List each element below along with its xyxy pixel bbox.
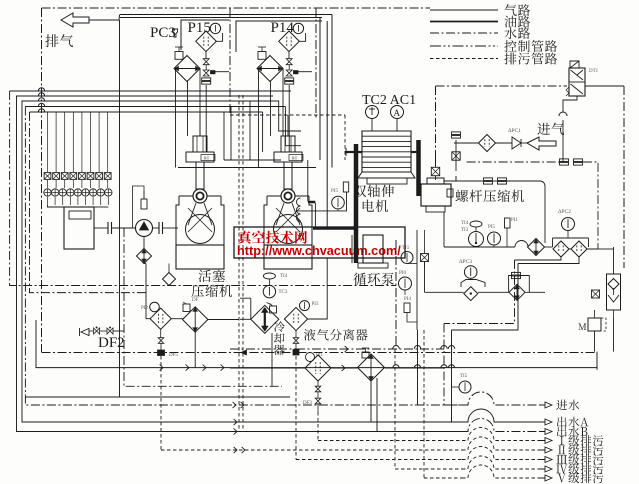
legend line oil 油路 — [430, 21, 498, 23]
wire comp drain left — [443, 212, 445, 247]
wire sep bottom valve — [295, 331, 297, 338]
svg-text:PI0: PI0 — [399, 271, 406, 276]
output line Ⅱ级排污 — [462, 437, 540, 450]
wire P14 col d — [288, 85, 290, 152]
svg-text:TI5: TI5 — [460, 374, 468, 379]
gauge circles row — [44, 189, 51, 196]
wire manifold right — [597, 247, 599, 249]
wire oil y292 — [425, 291, 464, 293]
wire P15 diamond sides — [175, 69, 177, 82]
wire water y368 hops — [393, 365, 399, 368]
svg-text:http://www.chvacuum.com/: http://www.chvacuum.com/ — [237, 244, 401, 258]
bowtie valve P15 1 — [203, 59, 209, 65]
wire comp1 top rod — [199, 115, 201, 136]
wire dashdot pump left — [395, 240, 397, 345]
output line 出水A — [462, 409, 540, 422]
solenoid squares row — [44, 173, 51, 180]
gauge PI5 — [488, 232, 501, 245]
svg-text:ΔPC3: ΔPC3 — [459, 259, 472, 265]
capacitor mark 1 — [107, 222, 109, 234]
wire top header line2 — [120, 17, 322, 19]
wire bus loop E water — [30, 111, 263, 113]
label 螺杆压缩机 — [456, 190, 525, 203]
bowtie valve P14 2 — [286, 70, 292, 76]
flowmeter squares — [484, 178, 493, 181]
piston compressor cylinder 2 — [281, 136, 295, 152]
valve nub P15 — [211, 71, 216, 74]
piston compressor cylinder 1 — [193, 136, 207, 152]
wire pump gauge stems — [407, 263, 417, 265]
svg-text:DF: DF — [192, 298, 199, 303]
circulation pump body — [363, 235, 383, 263]
wire right col down — [613, 318, 615, 348]
motor shaft left — [346, 151, 362, 153]
wire right pair drop — [443, 324, 445, 406]
valve PI1 — [505, 218, 511, 228]
wire df3 valve — [317, 381, 319, 386]
wire vertical x332 — [331, 15, 333, 168]
wire tank manifold — [48, 205, 65, 207]
union P15 — [202, 78, 211, 81]
wire M up — [594, 310, 596, 318]
bowtie valve P15 2 — [203, 70, 209, 76]
legend line gas 气路 — [430, 9, 498, 11]
gauge PI0 — [399, 277, 412, 290]
wire out y405 left — [444, 404, 462, 406]
component M — [588, 318, 601, 331]
chevrons y367 — [160, 365, 163, 371]
legend line drain 排污管路 — [430, 58, 498, 60]
wire P15 valve link — [205, 65, 207, 70]
wire sep right — [308, 259, 328, 320]
svg-text:DT1: DT1 — [589, 69, 599, 74]
svg-text:PI3: PI3 — [312, 302, 319, 307]
filter diamond intake — [479, 135, 496, 152]
wire P14 col a — [258, 82, 260, 168]
wire checkvalve col down — [613, 348, 615, 352]
svg-text:DF3: DF3 — [303, 401, 312, 406]
svg-text:TI3: TI3 — [461, 228, 469, 233]
output line 进水 — [462, 392, 540, 405]
label 进气 — [537, 123, 564, 135]
svg-text:PI5: PI5 — [488, 225, 495, 230]
wire P14 col b — [270, 82, 272, 137]
wire cooler out — [271, 333, 273, 386]
svg-text:PC3: PC3 — [150, 25, 176, 41]
wire PI4 down — [407, 313, 417, 323]
svg-text:PI1: PI1 — [511, 218, 518, 223]
output line 出水B — [462, 419, 540, 432]
svg-text:TI4: TI4 — [461, 221, 469, 226]
filter funnel dPC3 — [461, 280, 485, 288]
filter gauge dPC3 — [464, 266, 477, 279]
svg-text:TI4: TI4 — [280, 274, 288, 279]
check diamond P14 — [257, 56, 283, 82]
output line Ⅴ级排污 — [462, 465, 540, 478]
wire drain vert x424 — [423, 330, 425, 478]
wire DT1 drop cont — [562, 120, 564, 162]
wire pump col to water — [417, 330, 419, 405]
oil cooler manifold — [553, 238, 589, 247]
output line Ⅲ级排污 — [462, 447, 540, 460]
gauge TC2 — [366, 106, 379, 119]
wire control y162 — [467, 161, 560, 163]
check diamond P15 — [174, 56, 200, 82]
intake valve cone — [512, 137, 521, 149]
wires solenoid to circles — [47, 180, 49, 188]
svg-text:ΔPC2: ΔPC2 — [558, 209, 571, 215]
wire bottom line — [230, 367, 305, 369]
wire M col down — [594, 331, 596, 352]
gauge TC3 — [263, 285, 275, 297]
wire vertical x320 — [319, 18, 321, 161]
union control 1 — [560, 159, 569, 162]
valve DF2 cone — [81, 328, 89, 335]
wire relief — [133, 186, 145, 228]
wire df2 region — [146, 264, 150, 319]
label 活塞压缩机 — [199, 270, 226, 282]
svg-text:ΔPC1: ΔPC1 — [508, 128, 521, 134]
wires solenoid bank drop — [47, 112, 49, 172]
wire manifold y247 — [444, 246, 515, 248]
wire PI5 loop — [296, 192, 347, 211]
filter diamond dPC3 — [464, 287, 478, 301]
output line Ⅳ级排污 — [462, 456, 540, 469]
wire DF2 line — [113, 330, 124, 332]
svg-text:B/F: B/F — [204, 156, 211, 161]
check diamond below pump — [137, 249, 152, 264]
wire bus loop A water — [10, 90, 291, 92]
wire dashed mid vert — [344, 115, 346, 160]
wire pump to comp — [163, 227, 179, 229]
union intake — [452, 132, 461, 135]
wire manifold bottom — [515, 249, 599, 264]
intake arrow — [527, 137, 556, 150]
filter diamond sep — [284, 307, 307, 330]
label 循环泵 — [353, 273, 394, 285]
oil bar left — [354, 144, 359, 263]
svg-text:DF5: DF5 — [169, 353, 178, 358]
watermark text 真空技术网 — [238, 231, 307, 244]
chevrons y405 — [233, 402, 236, 408]
wire mid verticals — [223, 112, 225, 160]
bypass loop regulator — [509, 276, 530, 293]
check diamond oil — [528, 239, 545, 256]
wire P15 diamond drop — [205, 52, 207, 59]
wire bus loop C — [22, 101, 462, 422]
wire drain df3 col — [317, 412, 319, 441]
wire water return x36 — [36, 320, 597, 370]
wires circles to manifold — [47, 197, 49, 205]
filter diamond oilA — [553, 241, 569, 257]
wire P14 diamond sides — [258, 69, 260, 82]
wire squarex down — [424, 262, 426, 293]
label 液气分离器 — [304, 329, 368, 341]
wire P14 box — [236, 21, 322, 52]
wire manifold y247b — [527, 246, 530, 248]
valve PI5 — [343, 182, 348, 192]
svg-text:PI5: PI5 — [331, 189, 338, 194]
valve cooler top — [270, 306, 277, 313]
solenoid valve DT1 — [569, 68, 585, 96]
svg-text:DF2: DF2 — [98, 335, 125, 351]
gauge TI5 — [459, 381, 471, 393]
wire drain loop x124 — [124, 228, 282, 386]
svg-text:B/F: B/F — [292, 156, 299, 161]
oil bar horizontal — [313, 227, 358, 230]
gauge AC1 — [391, 106, 404, 119]
wire coolerout A — [370, 381, 372, 422]
check valve right — [607, 274, 621, 310]
wire border bottom dashdot — [42, 352, 596, 354]
svg-text:P15: P15 — [188, 20, 211, 36]
wire TC3 loop — [240, 298, 251, 319]
label 冷却器 vertical — [274, 321, 285, 332]
filter diamond PI1b — [305, 355, 331, 381]
wire P14 diamond drop — [288, 52, 290, 59]
wire tank out — [94, 227, 108, 229]
wire pump col — [416, 230, 418, 330]
label 电机 — [363, 200, 388, 213]
svg-text:PI2: PI2 — [141, 306, 148, 311]
wire bus loop B — [17, 96, 463, 432]
wire comp2 feed c — [262, 112, 264, 152]
bowtie valve P14 1 — [286, 59, 292, 65]
wire AC1 stem — [396, 119, 398, 132]
svg-text:TC3: TC3 — [279, 290, 288, 295]
wire P14 valve link — [288, 65, 290, 70]
valve top bottom — [362, 352, 369, 358]
wire drain vert x296 — [295, 356, 297, 460]
screw compressor body — [421, 184, 451, 206]
wire comp2 feed a — [246, 101, 301, 131]
wire top border dashdot — [42, 7, 431, 9]
wire P15 box — [181, 20, 229, 50]
wire intake drop2 — [455, 163, 457, 171]
filter diamond PI2b — [150, 308, 171, 329]
small diamond lower — [163, 273, 176, 286]
wire P15 col d — [205, 85, 207, 152]
legend line water 水路 — [430, 32, 498, 34]
valve nub P14 — [294, 71, 299, 74]
intercooler coil — [297, 198, 301, 222]
gauge P15 top — [210, 23, 220, 33]
gauge PI6 — [332, 196, 345, 209]
motor shaft right — [411, 151, 418, 153]
oil tank — [64, 207, 94, 249]
svg-text:TI1: TI1 — [402, 246, 410, 251]
squarex pump right — [421, 254, 429, 262]
hop DT1 — [559, 112, 567, 116]
wire top header line1 — [120, 14, 332, 16]
output line Ⅰ级排污 — [462, 428, 540, 441]
label 双轴伸 — [354, 185, 394, 197]
valve PI4 — [404, 303, 410, 313]
gauge dPC2 — [562, 218, 575, 231]
wire left border dashdot — [41, 8, 43, 352]
arrow on water line — [241, 350, 247, 355]
wire right down — [613, 247, 615, 274]
separator dashdot x230 — [229, 8, 231, 115]
valve P14 small — [258, 52, 266, 60]
wire right pair verts — [444, 260, 515, 324]
wire P14 gauge link — [299, 33, 305, 41]
wire P15 col a — [175, 82, 177, 168]
watermark box — [234, 227, 405, 258]
wire drain vert x395 — [394, 349, 396, 469]
wire dashed mid horiz — [230, 114, 345, 116]
squarex intake — [452, 152, 460, 160]
filter diamond P15 — [196, 31, 217, 52]
wire discharge — [456, 176, 483, 181]
legend line control 控制管路 — [430, 45, 498, 47]
hop manifold — [515, 241, 528, 248]
oil bar right — [416, 140, 421, 196]
motor body 双轴伸电机 — [362, 131, 411, 172]
wire control vert — [435, 86, 437, 150]
wire out y422 left — [452, 421, 463, 423]
wire d2 drop — [194, 332, 196, 367]
wire DT1 down — [563, 96, 577, 112]
wire coolerout B — [376, 378, 378, 432]
capacitor mark 2 — [158, 222, 160, 234]
relief valve above pump — [141, 199, 147, 209]
wire dashed vert pair — [238, 95, 240, 430]
check diamond bottom — [358, 354, 385, 381]
wire intake drop — [455, 147, 457, 163]
wire P15 gauge link — [216, 33, 222, 41]
gauge P14 top — [293, 23, 303, 33]
wire comp2 feed b — [285, 107, 301, 146]
wire P14 col c — [282, 79, 284, 136]
wire control dashdot top — [436, 85, 568, 87]
wire P15 col c — [199, 79, 201, 136]
wire bottom dashdot — [230, 348, 296, 350]
svg-text:A: A — [394, 108, 401, 118]
gauge TI3 — [469, 232, 484, 247]
check diamond regulator — [509, 284, 525, 300]
wire bus loop D water — [25, 106, 285, 108]
filter diamond oilB — [571, 241, 587, 257]
hop marks left border — [38, 88, 44, 91]
wire to pump — [112, 227, 137, 229]
gauge TI1 — [401, 252, 413, 264]
wire right border dashdot — [623, 86, 625, 268]
wire drain vert x162 — [160, 356, 162, 450]
svg-text:PI1: PI1 — [316, 353, 323, 358]
wire df5 union — [160, 329, 162, 337]
label 排气 — [45, 34, 73, 47]
wire DT1 right loop — [585, 85, 624, 87]
squarex right — [592, 290, 600, 298]
gauge PI3 — [300, 301, 310, 311]
wire x307 drop — [307, 160, 309, 202]
bowtie DF2 a — [94, 328, 100, 334]
check diamond DF — [183, 307, 208, 332]
wire vertical x326 — [326, 21, 328, 227]
wire TC2 stem — [371, 119, 373, 132]
exhaust arrow 排气 — [61, 13, 89, 27]
wire vertical dashdot x316 — [315, 8, 317, 120]
svg-text:P14: P14 — [271, 20, 295, 36]
valve P15 small — [175, 52, 183, 60]
wire intake line — [454, 142, 479, 144]
wire exhaust to header — [89, 15, 120, 21]
wire P15 col b — [187, 82, 189, 137]
cooler diamond — [251, 305, 279, 333]
wire TI3 stem — [475, 246, 477, 249]
union control 2 — [574, 159, 583, 162]
svg-text:PI4: PI4 — [404, 297, 411, 302]
union P14 — [285, 78, 294, 81]
filter diamond P14 — [279, 31, 300, 52]
wire water y349 hops — [393, 346, 399, 349]
wire control y162 right — [583, 162, 598, 247]
wire comp2 top rod — [287, 115, 289, 136]
oil pump — [136, 220, 153, 237]
wire manifold y247c — [545, 246, 553, 248]
wire comp top link — [444, 176, 456, 181]
wire pump out — [153, 227, 160, 229]
